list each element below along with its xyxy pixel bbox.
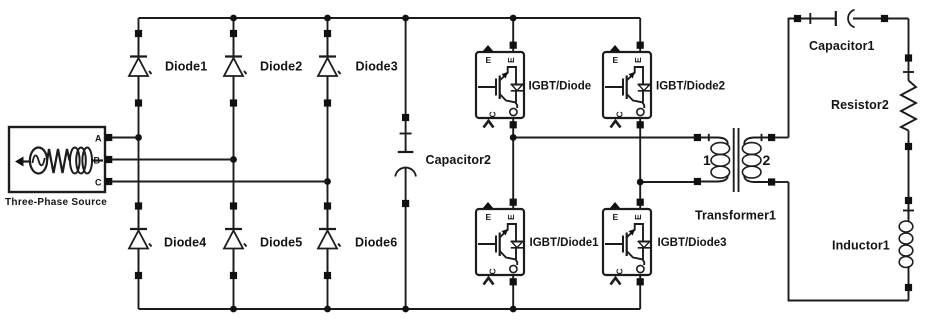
wire midrail node1 to Transformer xyxy=(513,137,694,139)
port T1 right top xyxy=(768,134,775,141)
inductor L1 coil xyxy=(899,204,913,301)
diode Diode6 xyxy=(318,202,341,279)
op IGBT/Diode block U1 xyxy=(476,42,524,129)
wire load left vertical top xyxy=(789,19,836,138)
node bottom rail dots xyxy=(230,306,237,313)
wire Diode3 column xyxy=(327,18,329,309)
capacitor C1 plus mark xyxy=(809,13,811,24)
port T1 left bottom xyxy=(694,178,701,185)
capacitor C2 plus mark xyxy=(400,133,412,135)
svg-text:Three-Phase Source: Three-Phase Source xyxy=(5,197,107,208)
wire source C xyxy=(112,181,327,183)
svg-text:Diode3: Diode3 xyxy=(356,60,398,74)
resistor R2 zigzag xyxy=(901,81,916,131)
svg-text:Resistor2: Resistor2 xyxy=(831,98,889,112)
port T1 left top xyxy=(694,134,701,141)
svg-text:Diode1: Diode1 xyxy=(165,60,207,74)
wire load right vertical xyxy=(908,19,910,81)
svg-text:B: B xyxy=(94,156,101,166)
wire T1 right top to load xyxy=(775,137,789,139)
port source C xyxy=(105,178,112,185)
port C2 bottom xyxy=(402,200,409,207)
svg-text:IGBT/Diode: IGBT/Diode xyxy=(529,81,592,93)
port C1 right xyxy=(881,15,888,22)
wire Capacitor2 column bottom xyxy=(405,167,407,309)
wire IGBT left column xyxy=(512,18,514,309)
wire T1 right bottom to load xyxy=(775,181,789,183)
wire source B xyxy=(112,159,233,161)
diode Diode4 xyxy=(129,202,152,279)
transformer T1 core xyxy=(734,128,739,192)
node top rail dots xyxy=(230,15,237,22)
wire bottom DC rail xyxy=(139,308,641,310)
wire source A xyxy=(112,137,138,139)
transformer T1 left winding xyxy=(701,134,730,182)
port R2 top xyxy=(905,54,912,61)
port T1 right bottom xyxy=(768,178,775,185)
wire R2 to L1 xyxy=(908,131,910,220)
port C2 top xyxy=(402,114,409,121)
wire IGBT right column xyxy=(639,18,641,309)
op IGBT/Diode1 block U3 xyxy=(476,199,524,286)
svg-text:C: C xyxy=(95,178,102,188)
wire C1 right xyxy=(853,18,909,20)
wire Capacitor2 column top xyxy=(405,18,407,152)
op IGBT/Diode2 block U2 xyxy=(603,42,651,129)
svg-text:Inductor1: Inductor1 xyxy=(832,239,890,253)
svg-text:Transformer1: Transformer1 xyxy=(695,209,776,223)
svg-text:Diode2: Diode2 xyxy=(260,60,302,74)
svg-text:1: 1 xyxy=(703,152,711,168)
capacitor C2 curved plate xyxy=(395,168,416,177)
diode Diode5 xyxy=(224,202,247,279)
diode Diode1 xyxy=(129,30,152,107)
port source B xyxy=(105,156,112,163)
svg-text:A: A xyxy=(95,134,102,144)
capacitor C1 curved plate xyxy=(848,10,855,28)
node B junction xyxy=(230,156,237,163)
port source A xyxy=(105,134,112,141)
svg-text:IGBT/Diode1: IGBT/Diode1 xyxy=(530,237,600,249)
wire midrail node2 to Transformer xyxy=(640,181,694,183)
port R2 bottom xyxy=(905,143,912,150)
svg-text:Capacitor2: Capacitor2 xyxy=(426,153,492,167)
node A junction xyxy=(135,134,142,141)
wire Diode2 column xyxy=(233,18,235,309)
svg-text:IGBT/Diode2: IGBT/Diode2 xyxy=(656,81,725,93)
port C1 left xyxy=(794,15,801,22)
svg-text:Diode6: Diode6 xyxy=(355,236,397,250)
node midrail2 junction xyxy=(637,179,644,186)
svg-text:Diode4: Diode4 xyxy=(164,236,206,250)
wire load left vertical bottom xyxy=(789,182,909,301)
port L1 bottom xyxy=(905,284,912,291)
resistor R2 plus mark xyxy=(903,71,914,73)
node C junction xyxy=(324,178,331,185)
svg-text:Diode5: Diode5 xyxy=(260,236,302,250)
wire Diode1 column xyxy=(138,18,140,309)
node midrail1 junction xyxy=(510,134,517,141)
port L1 top xyxy=(905,197,912,204)
capacitor C1 left plate xyxy=(835,11,837,26)
inductor L1 plus mark xyxy=(903,210,914,212)
op IGBT/Diode3 block U4 xyxy=(603,199,651,286)
wire top DC rail xyxy=(139,17,641,19)
svg-text:2: 2 xyxy=(763,152,771,168)
diode Diode3 xyxy=(318,30,341,107)
diode Diode2 xyxy=(224,30,247,107)
transformer T1 right winding xyxy=(742,134,768,182)
svg-text:Capacitor1: Capacitor1 xyxy=(809,39,875,53)
capacitor C2 top plate xyxy=(398,151,414,153)
svg-text:IGBT/Diode3: IGBT/Diode3 xyxy=(658,237,727,249)
source Three-Phase Source block xyxy=(9,127,105,192)
